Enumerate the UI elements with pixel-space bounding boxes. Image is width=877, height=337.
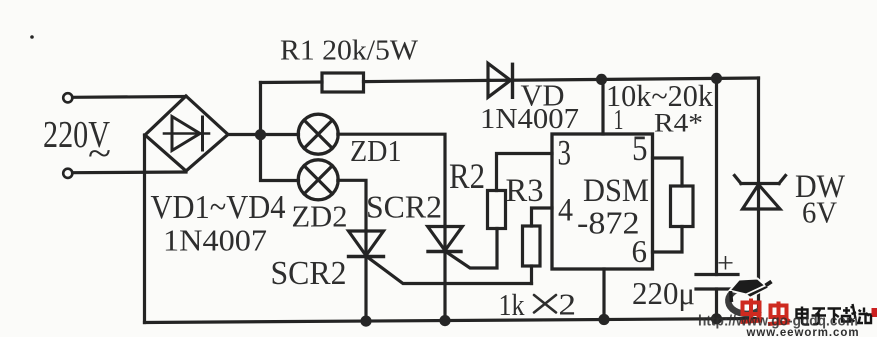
svg-text:SCR2: SCR2 <box>271 255 347 292</box>
capacitor C 220u <box>696 275 738 290</box>
wire top input <box>73 95 187 99</box>
wire bridge right vertex to node A <box>228 133 299 136</box>
wire pin5 to R4 <box>653 158 683 186</box>
terminal bottom <box>63 169 72 178</box>
lamp ZD2 <box>298 160 338 200</box>
wire top rail <box>261 80 323 84</box>
svg-text:SCR2: SCR2 <box>366 189 442 225</box>
node bottom rail cap dot <box>711 313 722 324</box>
wire bottom input <box>73 170 187 174</box>
wire right column riser <box>757 78 760 319</box>
svg-text:6V: 6V <box>802 195 838 230</box>
svg-text:1N4007: 1N4007 <box>163 223 267 258</box>
thyristor SCR2 right <box>428 227 463 321</box>
svg-text:220μ: 220μ <box>632 275 695 311</box>
svg-text:2: 2 <box>559 287 577 322</box>
svg-text:R2: R2 <box>449 156 485 196</box>
watermark site name chars <box>797 304 872 325</box>
wire SCR2 left gate <box>368 258 532 284</box>
wire ZD2 to SCR2a anode <box>338 180 366 231</box>
wire IC bottom pin to rail <box>602 269 605 320</box>
wire bottom rail <box>145 319 759 323</box>
node top rail cap dot <box>711 73 722 84</box>
IC U1 DSM-872 <box>552 134 653 269</box>
wire node A down to ZD2 <box>261 135 299 181</box>
svg-text:1k: 1k <box>499 287 525 322</box>
wire capacitor branch bottom <box>715 289 718 319</box>
wire pin4 to R3 <box>532 208 553 226</box>
resistor R1 <box>322 73 364 92</box>
watermark red stamp edge <box>872 308 877 317</box>
svg-text:4: 4 <box>558 193 573 229</box>
resistor R4 <box>671 186 694 227</box>
wire capacitor branch top <box>715 78 718 274</box>
svg-text:www.eeworm.com: www.eeworm.com <box>746 325 860 337</box>
svg-text:R3: R3 <box>506 173 544 209</box>
svg-text:ZD1: ZD1 <box>350 133 402 168</box>
svg-text:1: 1 <box>614 104 624 136</box>
wire R3 bottom lead <box>530 266 533 284</box>
svg-text:R4*: R4* <box>654 109 703 138</box>
zener diode DW <box>735 176 786 210</box>
thyristor SCR2 left <box>349 231 384 321</box>
terminal top <box>63 93 72 102</box>
bridge rectifier VD1~VD4 <box>145 96 228 171</box>
svg-text:DSM: DSM <box>583 173 649 209</box>
svg-text:+: + <box>717 248 734 280</box>
node A junction dot <box>255 129 266 140</box>
wire ZD1 to SCR2b anode <box>338 134 445 226</box>
svg-text:VD1~VD4: VD1~VD4 <box>151 189 286 226</box>
node top rail pin1 dot <box>596 74 607 85</box>
node bottom rail IC dot <box>598 314 609 325</box>
svg-text:5: 5 <box>632 128 648 168</box>
resistor R2 <box>488 191 506 229</box>
wire SCR2 right gate <box>447 229 497 269</box>
speck <box>30 35 34 39</box>
wire bridge left vertex down to bottom rail <box>143 135 146 323</box>
svg-text:~: ~ <box>88 133 111 175</box>
svg-text:ZD2: ZD2 <box>292 199 348 234</box>
wire pin1 riser <box>601 79 604 134</box>
node bottom rail SCR2a dot <box>360 316 371 327</box>
svg-text:1N4007: 1N4007 <box>480 104 579 135</box>
watermark chongchong red chars <box>741 299 790 325</box>
diode VD <box>488 63 513 97</box>
watermark logo cap <box>728 279 771 314</box>
wire pin3 to R2 <box>497 154 553 191</box>
label x of 1k x2 <box>534 295 556 313</box>
svg-text:R1 20k/5W: R1 20k/5W <box>280 35 419 67</box>
svg-text:3: 3 <box>558 133 572 173</box>
node bottom rail SCR2b dot <box>439 315 450 326</box>
wire pin6 to R4 <box>653 227 683 253</box>
resistor R3 <box>523 226 541 266</box>
lamp ZD1 <box>298 114 338 154</box>
wire left riser to junction A <box>259 83 262 136</box>
svg-text:-872: -872 <box>577 206 640 241</box>
